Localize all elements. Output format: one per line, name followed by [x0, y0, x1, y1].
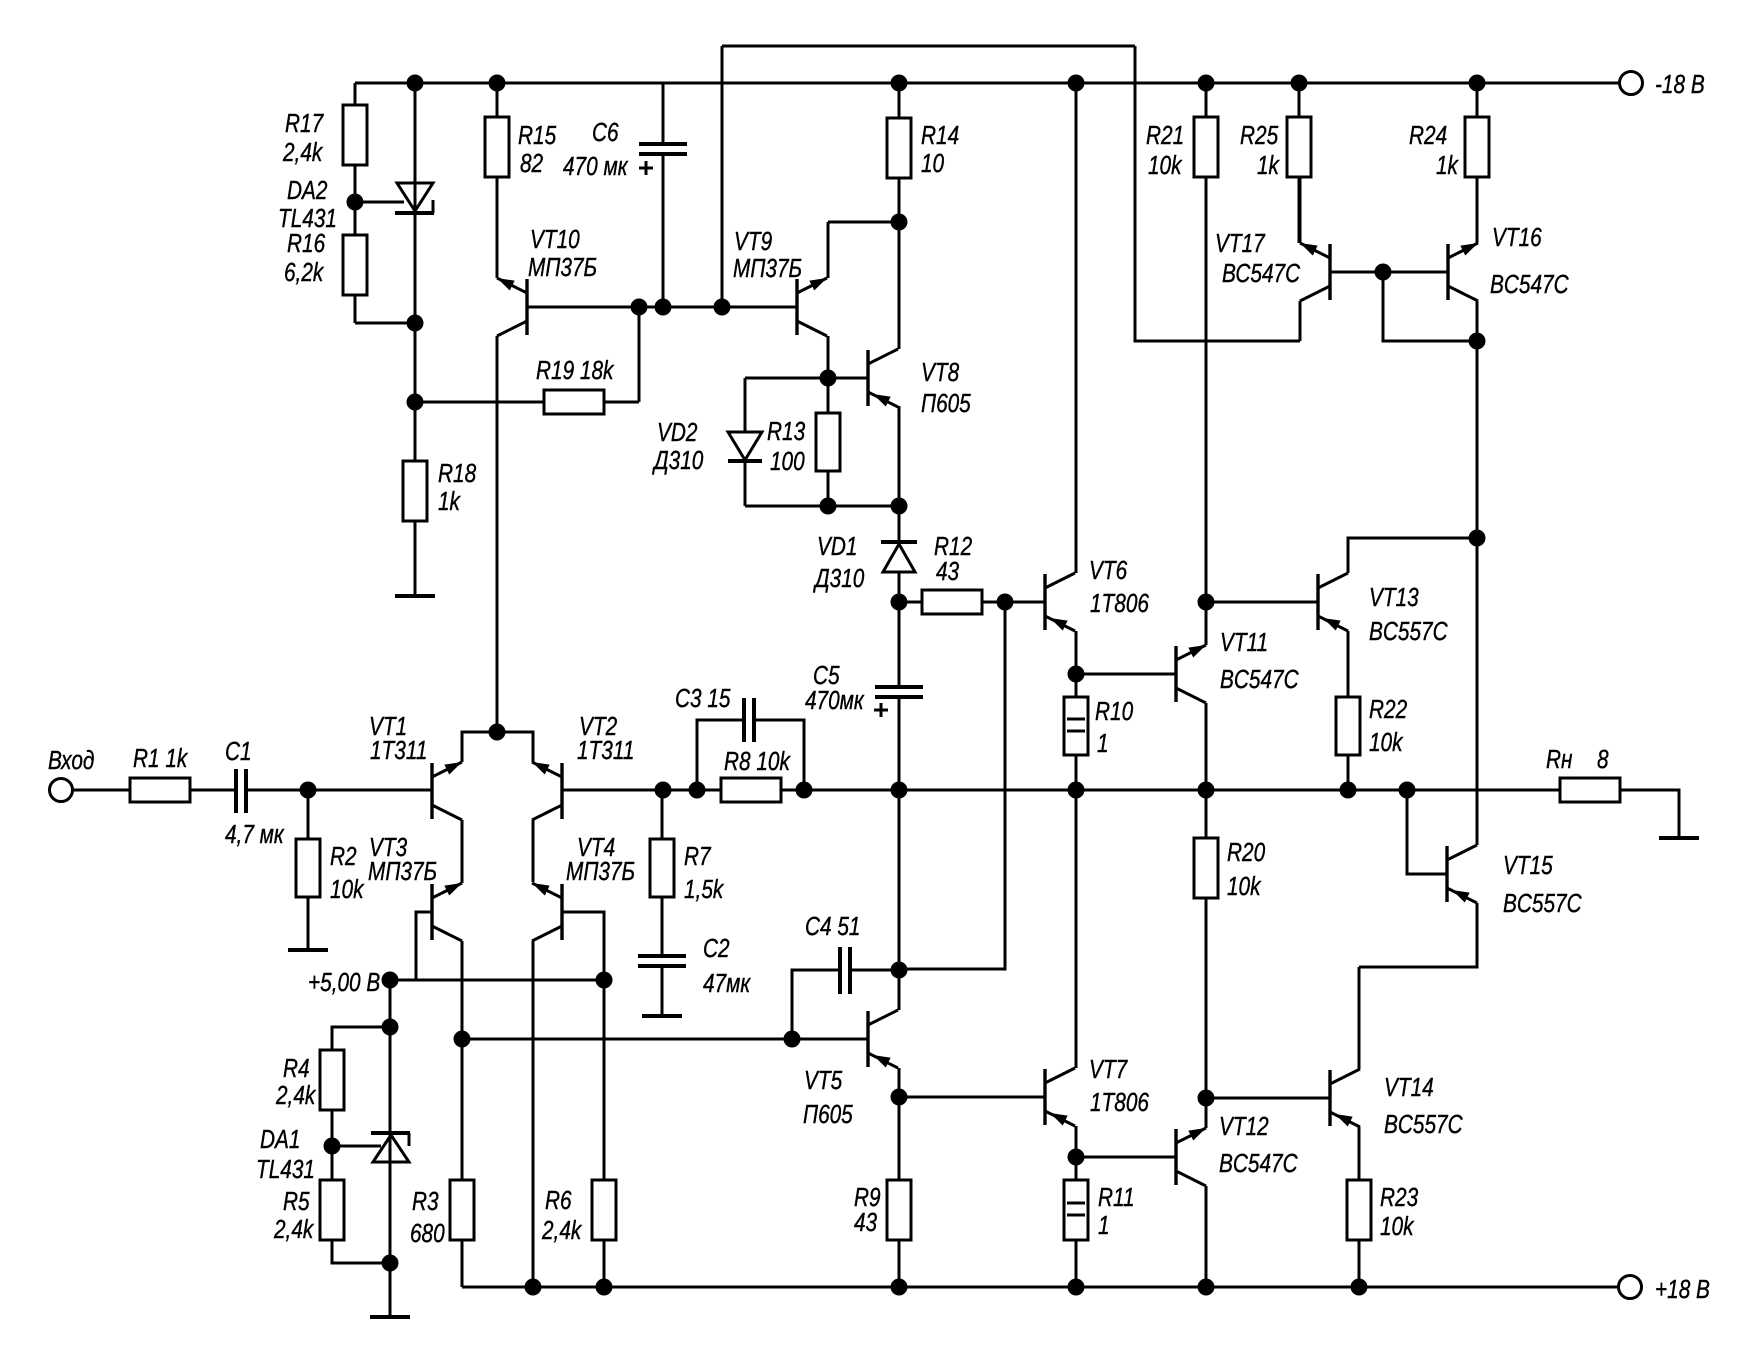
node R5 bottom junction: [382, 1255, 399, 1272]
svg-text:R1 1k: R1 1k: [133, 744, 188, 773]
wire VT14 base: [1206, 1097, 1330, 1100]
svg-text:R13: R13: [767, 417, 805, 446]
wire VT14 collector: [1358, 967, 1361, 1069]
wire VT6 collector to top rail: [1075, 83, 1078, 573]
svg-text:10k: 10k: [1227, 872, 1262, 901]
svg-text:8: 8: [1597, 745, 1609, 774]
svg-text:10k: 10k: [1380, 1212, 1415, 1241]
svg-text:П605: П605: [803, 1100, 854, 1129]
svg-text:1: 1: [1098, 1211, 1110, 1240]
svg-text:47мк: 47мк: [703, 969, 751, 998]
node C4 tap on VT5 base line: [784, 1031, 801, 1048]
svg-text:R10: R10: [1095, 697, 1133, 726]
terminal input Vhod: [50, 779, 73, 802]
capacitor C2: [638, 954, 686, 958]
node bottom rail junctions: [525, 1279, 542, 1296]
wire VT7 base: [899, 1096, 1045, 1099]
svg-text:1k: 1k: [1257, 151, 1280, 180]
svg-text:VT13: VT13: [1369, 583, 1419, 612]
svg-text:МП37Б: МП37Б: [566, 857, 635, 886]
resistor R2: [307, 790, 310, 839]
svg-text:82: 82: [520, 149, 543, 178]
wire VT9 emitter to R14 node: [827, 222, 830, 278]
node DA2 ref junction: [347, 194, 364, 211]
wire R13 bottom line: [745, 505, 899, 508]
wire +18V bottom rail: [462, 1286, 1618, 1289]
node diff pair common emitter: [489, 724, 506, 741]
wire compound collector bus x=1477: [1476, 341, 1479, 845]
wire VT11 base: [1076, 673, 1176, 676]
resistor R8: [721, 778, 781, 802]
wire C1 to VT1 base: [246, 789, 432, 792]
svg-text:ВС547С: ВС547С: [1222, 259, 1301, 288]
svg-text:R4: R4: [283, 1054, 310, 1083]
wire VT14 emitter to R23: [1358, 1127, 1361, 1180]
resistor R18: [414, 402, 417, 461]
svg-text:VT12: VT12: [1219, 1112, 1269, 1141]
wire VT11 collector: [1205, 703, 1208, 790]
capacitor C6: [662, 83, 665, 144]
node DA1 ref junction: [324, 1138, 341, 1155]
resistor R20: [1205, 790, 1208, 838]
transistor VT4: [560, 884, 563, 940]
transistor VT13: [1316, 574, 1319, 630]
svg-text:470мк: 470мк: [805, 686, 865, 715]
node R20 bottom / VT12 / VT14 junction: [1198, 1090, 1215, 1107]
wire VT11 emitter: [1205, 602, 1208, 645]
node VT11 base junction: [1068, 666, 1085, 683]
node R19/R18 junction: [407, 394, 424, 411]
wire VT16 collector: [1476, 301, 1479, 341]
svg-text:1Т806: 1Т806: [1090, 1088, 1150, 1117]
wire VT3 base to +5V: [416, 912, 432, 980]
svg-text:470 мк: 470 мк: [563, 152, 628, 181]
transistor VT9: [795, 279, 798, 335]
resistor R9: [898, 1097, 901, 1180]
svg-text:6,2k: 6,2k: [284, 258, 324, 287]
node R13 top junction: [820, 370, 837, 387]
transistor VT11: [1174, 646, 1177, 702]
wire diff pair emitters: [462, 732, 533, 762]
svg-text:МП37Б: МП37Б: [368, 857, 437, 886]
svg-text:1k: 1k: [438, 487, 461, 516]
wire VT8 base / R13 top line: [745, 377, 868, 380]
node VD1/R12/C5 junction: [891, 594, 908, 611]
ground below R2: [288, 948, 328, 952]
svg-text:43: 43: [936, 557, 959, 586]
svg-text:R3: R3: [412, 1187, 439, 1216]
node VT8 emitter junction: [891, 498, 908, 515]
node VT5 emitter / VT7 base junction: [891, 1089, 908, 1106]
transistor VT14: [1328, 1070, 1331, 1126]
node R2 junction: [300, 782, 317, 799]
svg-text:1Т311: 1Т311: [370, 736, 427, 765]
svg-text:Вход: Вход: [48, 746, 94, 775]
terminal +18V: [1619, 1276, 1642, 1299]
wire bootstrap drop x=1135 to VT17 collector: [1135, 46, 1300, 341]
diode VD2 D310: [744, 378, 747, 432]
ground below C2: [642, 1014, 682, 1018]
svg-text:BC547C: BC547C: [1219, 1149, 1298, 1178]
transistor VT10: [525, 279, 528, 335]
svg-text:VT10: VT10: [530, 225, 580, 254]
transistor VT12: [1174, 1129, 1177, 1185]
svg-text:R16: R16: [287, 229, 326, 258]
svg-text:10k: 10k: [330, 875, 365, 904]
svg-text:10k: 10k: [1148, 151, 1183, 180]
svg-text:R22: R22: [1369, 695, 1407, 724]
svg-text:C6: C6: [592, 118, 619, 147]
svg-text:R11: R11: [1098, 1183, 1135, 1212]
wire DA2 ref: [355, 201, 404, 204]
svg-text:VD1: VD1: [817, 532, 857, 561]
svg-text:1k: 1k: [1436, 151, 1459, 180]
resistor R17: [354, 83, 357, 105]
svg-text:100: 100: [770, 447, 805, 476]
resistor R16: [354, 202, 357, 235]
svg-text:R20: R20: [1227, 838, 1265, 867]
node R13 bottom junction: [820, 498, 837, 515]
wire VT12 base: [1076, 1156, 1176, 1159]
svg-text:R17: R17: [285, 109, 324, 138]
wire VT7 emitter: [1075, 1126, 1078, 1157]
node C5 bottom on main line: [891, 782, 908, 799]
svg-text:C1: C1: [225, 737, 252, 766]
svg-text:VD2: VD2: [657, 418, 697, 447]
node VT15 base tap on main line: [1399, 782, 1416, 799]
wire VT5 emitter: [898, 1068, 901, 1097]
svg-text:-18 В: -18 В: [1655, 70, 1705, 99]
wire second top rail (bootstrap): [722, 45, 1135, 48]
wire VT13 base: [1206, 601, 1318, 604]
wire VT12 emitter: [1205, 1098, 1208, 1128]
wire R12 node down to C4 line: [899, 602, 1005, 969]
resistor R6: [603, 980, 606, 1180]
svg-text:R23: R23: [1380, 1183, 1418, 1212]
svg-text:4,7 мк: 4,7 мк: [225, 820, 285, 849]
svg-text:П605: П605: [921, 389, 972, 418]
capacitor C4: [792, 970, 840, 1039]
resistor R24: [1476, 83, 1479, 117]
wire VT15 base: [1407, 790, 1447, 874]
svg-text:R19 18k: R19 18k: [536, 356, 615, 385]
node +5V / VT4 base / R6: [596, 972, 613, 989]
svg-text:DA1: DA1: [260, 1125, 300, 1154]
svg-text:VT11: VT11: [1220, 628, 1268, 657]
resistor R10: [1064, 697, 1088, 755]
resistor R11: [1075, 1157, 1078, 1180]
svg-text:BC557C: BC557C: [1369, 617, 1448, 646]
svg-text:680: 680: [410, 1219, 445, 1248]
resistor R14: [898, 83, 901, 118]
wire VT16/VT17 base line: [1330, 271, 1448, 274]
diode VD1 D310: [898, 506, 901, 544]
resistor R22: [1336, 697, 1360, 755]
node C4 right junction: [891, 962, 908, 979]
wire input line: [73, 789, 130, 792]
wire VT10 collector down to diff pair: [496, 336, 499, 732]
ground below R18: [395, 594, 435, 598]
svg-text:Rн: Rн: [1546, 745, 1572, 774]
svg-text:R15: R15: [518, 121, 557, 150]
svg-text:МП37Б: МП37Б: [528, 253, 597, 282]
resistor R4: [332, 1027, 390, 1050]
wire base link to VT16 collector: [1383, 272, 1477, 341]
svg-text:VT6: VT6: [1089, 556, 1128, 585]
transistor VT3: [430, 884, 433, 940]
resistor Rn load: [1560, 778, 1620, 802]
node R21/VT11/VT13 junction: [1198, 594, 1215, 611]
wire VT5 base line: [462, 1038, 868, 1041]
node C3/R8 right junction: [796, 782, 813, 799]
node base line junctions: [631, 299, 648, 316]
svg-text:2,4k: 2,4k: [282, 138, 323, 167]
transistor VT15: [1445, 846, 1448, 902]
wire VT15 emitter to VT14 collector: [1359, 903, 1477, 967]
wire VT17 collector to bootstrap: [1299, 301, 1302, 341]
svg-text:R21: R21: [1146, 121, 1184, 150]
svg-text:DA2: DA2: [287, 176, 327, 205]
svg-text:2,4k: 2,4k: [275, 1081, 316, 1110]
svg-text:VT5: VT5: [804, 1066, 843, 1095]
svg-text:+18 В: +18 В: [1655, 1275, 1710, 1304]
node R20 top on main line: [1198, 782, 1215, 799]
svg-text:BC547C: BC547C: [1220, 665, 1299, 694]
svg-text:МП37Б: МП37Б: [733, 254, 802, 283]
IC DA1 TL431 shunt regulator: [389, 980, 392, 1317]
wire top -18V rail: [355, 82, 1619, 85]
resistor R25: [1298, 83, 1301, 117]
wire VT1 collector to VT3 emitter: [461, 820, 464, 883]
transistor VT5: [866, 1011, 869, 1067]
IC DA2 TL431 shunt regulator: [414, 83, 417, 402]
wire bootstrap drop x=722: [721, 46, 724, 307]
node +5V left: [382, 972, 399, 989]
node R12 right junction: [997, 594, 1014, 611]
node R14/VT9/VT8 junction: [891, 214, 908, 231]
svg-text:1,5k: 1,5k: [684, 875, 724, 904]
wire VT4 base to +5V: [562, 912, 604, 980]
wire VT2 base to main line: [562, 789, 1560, 792]
svg-text:VT17: VT17: [1215, 229, 1265, 258]
capacitor C3: [742, 698, 746, 742]
resistor R19: [415, 401, 544, 404]
svg-text:10k: 10k: [1369, 728, 1404, 757]
node top rail junctions: [407, 75, 424, 92]
wire VT12 collector: [1205, 1186, 1208, 1287]
svg-text:2,4k: 2,4k: [273, 1215, 314, 1244]
svg-text:R7: R7: [684, 842, 711, 871]
resistor R1: [130, 778, 190, 802]
wire Rn to ground: [1620, 790, 1679, 838]
svg-text:R6: R6: [545, 1186, 572, 1215]
svg-text:2,4k: 2,4k: [541, 1216, 582, 1245]
transistor VT2: [560, 763, 563, 819]
resistor R12: [899, 601, 922, 604]
wire VT13 emitter to R22: [1347, 631, 1350, 697]
svg-text:R18: R18: [438, 459, 476, 488]
svg-text:1: 1: [1097, 729, 1109, 758]
wire C3 loop: [697, 720, 744, 790]
ground below DA1 chain: [370, 1315, 410, 1319]
wire VT9 collector: [827, 336, 830, 378]
transistor VT8: [866, 350, 869, 406]
resistor R15: [496, 83, 499, 117]
svg-text:1Т806: 1Т806: [1090, 589, 1150, 618]
svg-text:10: 10: [921, 149, 944, 178]
svg-text:VT8: VT8: [921, 358, 959, 387]
wire VT15 collector: [1476, 538, 1479, 845]
resistor R21: [1205, 83, 1208, 117]
svg-text:43: 43: [854, 1208, 877, 1237]
node R4 top junction: [382, 1019, 399, 1036]
node VT7 emitter / VT12 base junction: [1068, 1149, 1085, 1166]
svg-text:C2: C2: [703, 934, 730, 963]
transistor VT17: [1328, 244, 1331, 300]
svg-text:C4 51: C4 51: [805, 912, 860, 941]
node VT16/VT17 base junction: [1375, 264, 1392, 281]
svg-text:VT9: VT9: [734, 227, 772, 256]
transistor VT7: [1043, 1069, 1046, 1125]
resistor R13: [827, 378, 830, 413]
node R10 bottom on main line: [1068, 782, 1085, 799]
node VT16 collector junction: [1469, 333, 1486, 350]
wire VT2 collector to VT4 emitter: [532, 820, 535, 882]
svg-text:1Т311: 1Т311: [577, 736, 634, 765]
resistor R3: [450, 1180, 474, 1240]
svg-text:BC557C: BC557C: [1503, 889, 1582, 918]
node R3 / VT5 base line junction: [454, 1031, 471, 1048]
wire VT7 collector: [1075, 790, 1078, 1068]
svg-text:R24: R24: [1409, 121, 1447, 150]
node collector bus / VT13 junction: [1469, 530, 1486, 547]
svg-text:TL431: TL431: [256, 1155, 315, 1184]
capacitor C1: [234, 769, 238, 813]
wire VT8 emitter: [898, 406, 901, 506]
svg-text:R25: R25: [1240, 121, 1279, 150]
wire VT10/VT9 base line: [527, 306, 797, 309]
resistor R5: [331, 1146, 334, 1180]
wire VT4 collector to bottom rail: [532, 941, 535, 1287]
resistor R23: [1347, 1180, 1371, 1240]
wire VT3 collector to R3: [461, 941, 464, 1180]
svg-text:R2: R2: [330, 842, 357, 871]
wire R1 to C1: [190, 789, 236, 792]
capacitor C5: [898, 602, 901, 687]
transistor VT6: [1043, 574, 1046, 630]
svg-text:C3 15: C3 15: [675, 684, 731, 713]
svg-text:R5: R5: [283, 1187, 310, 1216]
node R16/DA2 anode junction: [407, 315, 424, 332]
wire VT6 emitter to R10: [1075, 631, 1078, 697]
node R7 top junction: [655, 782, 672, 799]
wire VT13 collector: [1348, 538, 1477, 573]
wire +5V rail: [390, 979, 604, 982]
wire VT17 emitter to R25: [1299, 178, 1302, 243]
wire VT5 collector: [898, 970, 901, 1010]
svg-text:R8 10k: R8 10k: [724, 747, 791, 776]
svg-text:R14: R14: [921, 121, 959, 150]
svg-text:BC557C: BC557C: [1384, 1110, 1463, 1139]
svg-text:+5,00 В: +5,00 В: [308, 968, 380, 997]
resistor R7: [661, 790, 664, 839]
svg-text:Д310: Д310: [651, 446, 703, 475]
terminal -18V: [1477, 82, 1619, 85]
wire DA1 ref: [332, 1145, 381, 1148]
svg-text:BC547C: BC547C: [1490, 270, 1569, 299]
node R22 bottom on main line: [1340, 782, 1357, 799]
node C3/R8 left junction: [689, 782, 706, 799]
svg-text:VT16: VT16: [1492, 223, 1542, 252]
wire VT8 collector: [898, 222, 901, 349]
wire main line down to C4/VT5: [898, 790, 901, 970]
transistor VT1: [430, 763, 433, 819]
ground below Rn: [1659, 836, 1699, 840]
svg-text:VT14: VT14: [1384, 1073, 1434, 1102]
svg-text:Д310: Д310: [812, 564, 864, 593]
svg-text:VT7: VT7: [1089, 1055, 1128, 1084]
transistor VT16: [1446, 244, 1449, 300]
svg-text:VT15: VT15: [1503, 851, 1553, 880]
